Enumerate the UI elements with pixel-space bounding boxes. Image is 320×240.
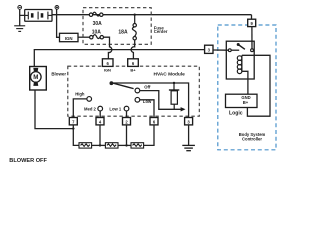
ignition switch feed box IGN [60, 33, 79, 41]
svg-text:B+: B+ [130, 67, 136, 72]
relay blade pivot [237, 43, 240, 46]
wire: coil top to logic loop [242, 55, 270, 116]
svg-text:10A: 10A [92, 30, 102, 36]
relay blade [238, 45, 245, 50]
body system controller dashed box [218, 25, 276, 150]
svg-text:IGN: IGN [65, 36, 73, 41]
connector 7 [69, 118, 77, 125]
fuse center dashed box [83, 8, 151, 45]
relay contact left [228, 49, 231, 52]
svg-text:Logic: Logic [229, 111, 243, 117]
svg-text:18A: 18A [118, 30, 128, 36]
connector 6 (resistors) [150, 118, 158, 125]
resistor R3 [131, 143, 144, 148]
wire: Low contact to connector 6 [140, 100, 154, 118]
svg-text:Off: Off [144, 85, 151, 90]
battery B1 [25, 10, 53, 22]
wire: R3 to connector 6 [144, 125, 154, 145]
svg-text:Low 1: Low 1 [109, 106, 122, 111]
svg-text:30A: 30A [93, 21, 103, 27]
wire: coil bottom to logic box [242, 71, 248, 94]
svg-text:High: High [75, 91, 85, 96]
wire: Low 1 contact to connector 2 [126, 111, 128, 118]
relay contact right [251, 49, 254, 52]
svg-text:Center: Center [154, 29, 168, 34]
contact Low 1 [124, 106, 129, 111]
connector 3 (BSC) [205, 45, 213, 53]
wire: ignition branch from positive terminal [57, 9, 60, 37]
connector 3 (HVAC ground) [185, 118, 193, 125]
fuse 10A [90, 35, 104, 39]
connector 2 [123, 118, 131, 125]
wire: motor return to connector 7 [35, 90, 73, 129]
resistor R2 [105, 143, 118, 148]
wire: connector 9 into relay [251, 27, 253, 49]
wire: 10A fuse output with hop over blower feed [103, 37, 111, 59]
node: resistor tap junction [173, 82, 175, 84]
node: 18A branch junction [134, 14, 136, 16]
wire: connector 3 to relay contact [213, 49, 228, 51]
svg-text:B+: B+ [243, 100, 249, 105]
wire: Off contact to bleed resistor [140, 91, 182, 110]
svg-text:Controller: Controller [242, 137, 262, 142]
contact Low [135, 97, 140, 102]
contact Off [135, 88, 140, 93]
battery positive terminal [55, 6, 59, 10]
resistor R1 [79, 143, 92, 148]
wire: connector 7 to resistor chain [73, 125, 79, 145]
connector 6 (IGN) [102, 59, 113, 73]
wire: R1 to R2 [92, 144, 106, 146]
connector 6 (B+) [128, 59, 139, 73]
svg-text:HVAC Module: HVAC Module [154, 71, 186, 77]
label Fuse Center [154, 25, 168, 34]
battery negative terminal [18, 6, 22, 10]
fuse 18A (vertical) [132, 15, 136, 40]
blower switch pivot [110, 81, 114, 85]
wire: connector 4 down [99, 125, 101, 145]
wire: High contact to connector 7 [73, 99, 87, 118]
fuse 30A [89, 12, 103, 16]
HVAC module dashed box [68, 66, 200, 116]
svg-text:Blower: Blower [51, 71, 66, 76]
wire: left contact stub [231, 49, 239, 51]
wire: negative terminal to ground [20, 9, 25, 26]
wire: R2 to R3 [118, 144, 131, 146]
svg-text:Med 2: Med 2 [84, 106, 97, 111]
wire: switch common to connector 3 [111, 83, 188, 118]
wire: 18A fuse output with hop to B+ connector [131, 40, 135, 59]
svg-text:BLOWER OFF: BLOWER OFF [9, 158, 47, 164]
blower motor M [30, 67, 47, 91]
connector 9 [248, 19, 256, 26]
contact High [87, 97, 92, 102]
wire: relay output feed to blower motor [34, 50, 204, 67]
blower switch lever [112, 83, 134, 89]
node: tap Med2 [99, 144, 101, 146]
resistor (HVAC bleed) [169, 83, 179, 109]
contact Med 2 [98, 106, 103, 111]
arrow to ground path [181, 107, 186, 111]
node: tap Low1 [125, 144, 127, 146]
relay K1 box [226, 41, 254, 79]
wire: battery positive feed (top main wire) [52, 15, 252, 20]
wire: IGN box to 10A fuse [78, 36, 90, 38]
svg-text:IGN: IGN [104, 67, 111, 72]
wire: connector 3 to ground [188, 125, 190, 145]
node: junction motor return / resistor chain [72, 127, 74, 129]
logic box GND B+ [226, 94, 258, 107]
ground (battery) [14, 26, 25, 32]
svg-text:M: M [33, 74, 38, 81]
wire: connector 2 down [126, 125, 128, 145]
label Body System Controller [239, 132, 266, 142]
wire: Med 2 contact to connector 4 [99, 111, 101, 118]
connector 4 [96, 118, 104, 125]
relay coil [237, 56, 242, 74]
ground (HVAC) [182, 145, 195, 150]
